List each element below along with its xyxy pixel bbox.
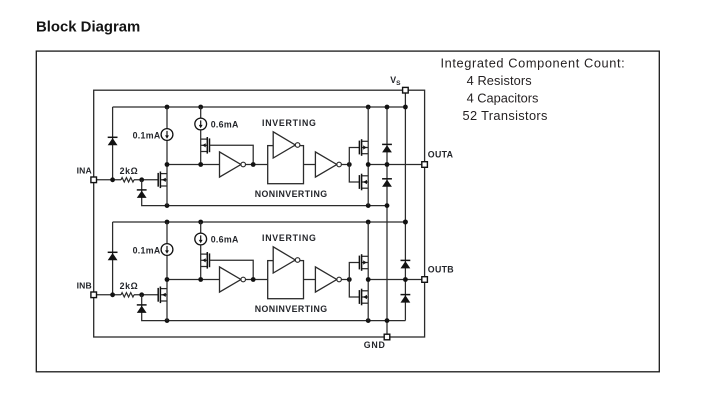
svg-text:0.6mA: 0.6mA bbox=[211, 120, 239, 130]
diode: input clamp to lower rail (channel A) bbox=[137, 190, 147, 198]
wire: output-stage gate bus (channel A) bbox=[349, 148, 359, 183]
transistor: output NMOS (channel A) bbox=[359, 174, 368, 191]
diode: input clamp to lower rail (channel B) bbox=[137, 305, 147, 313]
inverting amplifier triangle (channel B) bbox=[273, 247, 300, 273]
wire: clamp PMOS gate to first inverter output bbox=[210, 260, 254, 279]
transistor: output PMOS (channel B) bbox=[359, 254, 368, 271]
terminal INA bbox=[91, 177, 97, 183]
terminal Vs bbox=[403, 87, 409, 93]
svg-text:0.1mA: 0.1mA bbox=[133, 245, 161, 255]
diode: input clamp to Vs rail (channel A) bbox=[108, 137, 118, 145]
wire: OUTB line bbox=[368, 279, 424, 281]
wire: channel A left riser (input clamp branch) bbox=[112, 107, 114, 180]
svg-text:INB: INB bbox=[77, 281, 92, 291]
svg-text:2kΩ: 2kΩ bbox=[120, 281, 139, 291]
junction: output-stage gate node bbox=[347, 162, 352, 167]
junctions on INB line bbox=[110, 292, 144, 297]
junctions on OUTA line bbox=[366, 162, 390, 167]
transistor: input NMOS (channel B) bbox=[158, 287, 167, 304]
inverting amplifier triangle (channel A) bbox=[273, 132, 300, 158]
gain block box (channel A) bbox=[268, 146, 304, 184]
current source 0.1mA (channel B) bbox=[161, 244, 173, 256]
svg-text:GND: GND bbox=[364, 340, 386, 350]
diode: output clamp high (channel B) bbox=[401, 260, 411, 268]
wire: inverter 2 output to output-stage gates bbox=[341, 164, 349, 166]
junctions on OUTB line bbox=[366, 277, 408, 282]
wire: input line after resistor to gate bbox=[134, 179, 158, 181]
wire: INA input line bbox=[94, 179, 121, 181]
wire: 0.6mA bias column (channel B) bbox=[200, 222, 202, 233]
diode: output clamp low (channel B) bbox=[401, 295, 411, 303]
inverter 1 (channel A) bbox=[220, 152, 246, 177]
transistor: output PMOS (channel A) bbox=[359, 139, 368, 156]
svg-text:OUTB: OUTB bbox=[428, 265, 454, 275]
wire: INB input line bbox=[94, 294, 121, 296]
junctions on signal line bbox=[165, 162, 204, 167]
svg-text:NONINVERTING: NONINVERTING bbox=[255, 189, 328, 199]
current source 0.6mA (channel A) bbox=[195, 118, 207, 130]
wire: input NMOS drain-source column bbox=[166, 165, 168, 206]
IC boundary box bbox=[94, 90, 425, 337]
diode: input clamp to Vs rail (channel B) bbox=[108, 252, 118, 260]
wire: input line after resistor to gate bbox=[134, 294, 158, 296]
svg-text:INVERTING: INVERTING bbox=[262, 233, 317, 243]
terminal OUTA bbox=[422, 162, 428, 168]
inverter 2 (channel A) bbox=[315, 152, 341, 177]
transistor: clamp PMOS (channel A) bbox=[201, 137, 210, 154]
svg-text:4 Resistors: 4 Resistors bbox=[467, 73, 532, 88]
wire: channel B supply rail bbox=[113, 221, 406, 223]
junctions on channel A supply rail bbox=[165, 105, 408, 110]
current source 0.6mA (channel B) bbox=[195, 233, 207, 245]
svg-text:Integrated Component Count:: Integrated Component Count: bbox=[441, 55, 626, 70]
inverter 1 (channel B) bbox=[220, 267, 246, 292]
diode: output clamp high (channel A) bbox=[382, 144, 392, 152]
svg-text:INA: INA bbox=[77, 166, 92, 176]
wire: output-stage gate bus (channel B) bbox=[349, 263, 359, 298]
svg-text:4 Capacitors: 4 Capacitors bbox=[467, 91, 539, 106]
wire: GND bus / channel A clamp column bbox=[386, 107, 388, 206]
resistor 2kΩ (channel A) bbox=[121, 178, 134, 182]
wire: output-stage column (channel B) bbox=[367, 222, 369, 321]
inverter 2 (channel B) bbox=[315, 267, 341, 292]
gain block box (channel B) bbox=[268, 261, 304, 299]
svg-text:Block Diagram: Block Diagram bbox=[36, 20, 140, 36]
svg-text:0.1mA: 0.1mA bbox=[133, 130, 161, 140]
junction: inverter 1 output node bbox=[251, 162, 256, 167]
junction: output-stage gate node bbox=[347, 277, 352, 282]
svg-text:2kΩ: 2kΩ bbox=[120, 166, 139, 176]
junctions on channel B supply rail bbox=[165, 220, 408, 225]
wire: inverter 2 output to output-stage gates bbox=[341, 279, 349, 281]
transistor: clamp PMOS (channel B) bbox=[201, 252, 210, 269]
junctions on INA line bbox=[110, 177, 144, 182]
wire: channel B lower rail bbox=[167, 320, 405, 322]
terminal INB bbox=[91, 292, 97, 298]
resistor 2kΩ (channel B) bbox=[121, 293, 134, 297]
wire: inverter 1 output to gain block bbox=[246, 279, 268, 281]
wire: 0.1mA bias column (channel B) bbox=[166, 222, 168, 244]
note: integrated component count bbox=[441, 55, 626, 123]
wire: Vs bus / channel B clamp column bbox=[404, 90, 406, 222]
svg-text:OUTA: OUTA bbox=[428, 150, 454, 160]
wire: 0.1mA bias column (channel A) bbox=[166, 107, 168, 129]
svg-text:INVERTING: INVERTING bbox=[262, 118, 317, 128]
terminal GND bbox=[384, 334, 390, 340]
wire: channel A supply rail bbox=[113, 106, 406, 108]
junctions on channel B lower rail bbox=[165, 318, 390, 323]
svg-text:NONINVERTING: NONINVERTING bbox=[255, 304, 328, 314]
wire: OUTA line bbox=[368, 164, 424, 166]
junctions on channel A lower rail bbox=[165, 203, 390, 208]
wire: 0.6mA bias column (channel A) bbox=[200, 107, 202, 118]
wire: channel B left riser (input clamp branch) bbox=[112, 222, 114, 295]
terminal OUTB bbox=[422, 277, 428, 283]
svg-text:52 Transistors: 52 Transistors bbox=[463, 108, 548, 123]
wire: inverter 1 output to gain block bbox=[246, 164, 268, 166]
junction: Vs bus at channel B rail bbox=[403, 220, 408, 225]
transistor: input NMOS (channel A) bbox=[158, 172, 167, 189]
current source 0.1mA (channel A) bbox=[161, 129, 173, 141]
diode: output clamp low (channel A) bbox=[382, 179, 392, 187]
transistor: output NMOS (channel B) bbox=[359, 289, 368, 306]
svg-text:0.6mA: 0.6mA bbox=[211, 235, 239, 245]
junctions on signal line bbox=[165, 277, 204, 282]
wire: input NMOS drain-source column bbox=[166, 280, 168, 321]
wire: signal line to first inverter (channel A) bbox=[167, 164, 220, 166]
wire: output-stage column (channel A) bbox=[367, 107, 369, 206]
wire: channel A lower rail bbox=[167, 205, 387, 207]
wire: gain block to inverter 2 (channel A) bbox=[304, 164, 316, 166]
wire: gain block to inverter 2 (channel B) bbox=[304, 279, 316, 281]
wire: lower clamp branch (channel B) bbox=[142, 295, 167, 321]
junction: inverter 1 output node bbox=[251, 277, 256, 282]
wire: lower clamp branch (channel A) bbox=[142, 180, 167, 206]
wire: signal line to first inverter (channel B) bbox=[167, 279, 220, 281]
wire: clamp PMOS gate to first inverter output bbox=[210, 145, 254, 164]
